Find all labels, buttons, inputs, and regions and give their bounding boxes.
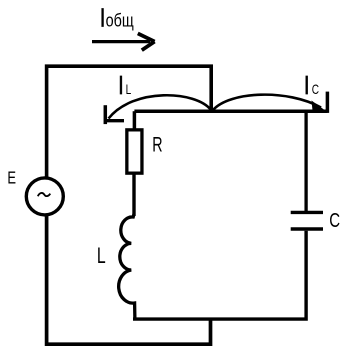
wire right stub up — [326, 92, 330, 113]
wire capacitor branch upper — [304, 111, 307, 211]
inductor L — [119, 214, 135, 320]
svg-text:I: I — [100, 3, 105, 32]
svg-text:общ: общ — [106, 10, 134, 31]
node junction (wire from top to resistor) — [133, 111, 137, 130]
resistor R — [127, 130, 142, 173]
wire left vertical lower + bottom outer + riser — [47, 215, 211, 344]
svg-text:L: L — [97, 245, 106, 269]
wire resistor to inductor — [132, 173, 135, 216]
arrow Iобщ direction (right) — [92, 33, 155, 50]
svg-text:I: I — [304, 70, 309, 99]
wire top outer + left vertical upper + drop to junction — [47, 66, 212, 178]
arrowhead IL — [104, 105, 124, 124]
ac source tilde — [38, 193, 51, 196]
svg-text:R: R — [152, 133, 162, 156]
svg-text:I: I — [118, 70, 123, 99]
capacitor C bottom plate — [291, 227, 323, 230]
label IL — [118, 70, 131, 99]
svg-text:C: C — [329, 209, 340, 232]
arc arrow IC (junction to right) — [213, 95, 321, 110]
wire inner top (junction to right stub) — [134, 109, 327, 113]
capacitor C top plate — [291, 211, 323, 214]
arrowhead IC — [312, 101, 329, 113]
svg-text:E: E — [7, 168, 16, 188]
label Iобщ (total current) — [100, 3, 134, 32]
arc arrow IL (junction to left) — [109, 95, 212, 118]
label IC — [304, 70, 319, 99]
wire inner bottom (L bottom to C bottom) — [133, 231, 306, 319]
svg-text:L: L — [126, 82, 132, 98]
ac source E — [26, 178, 63, 215]
svg-text:C: C — [312, 81, 319, 97]
